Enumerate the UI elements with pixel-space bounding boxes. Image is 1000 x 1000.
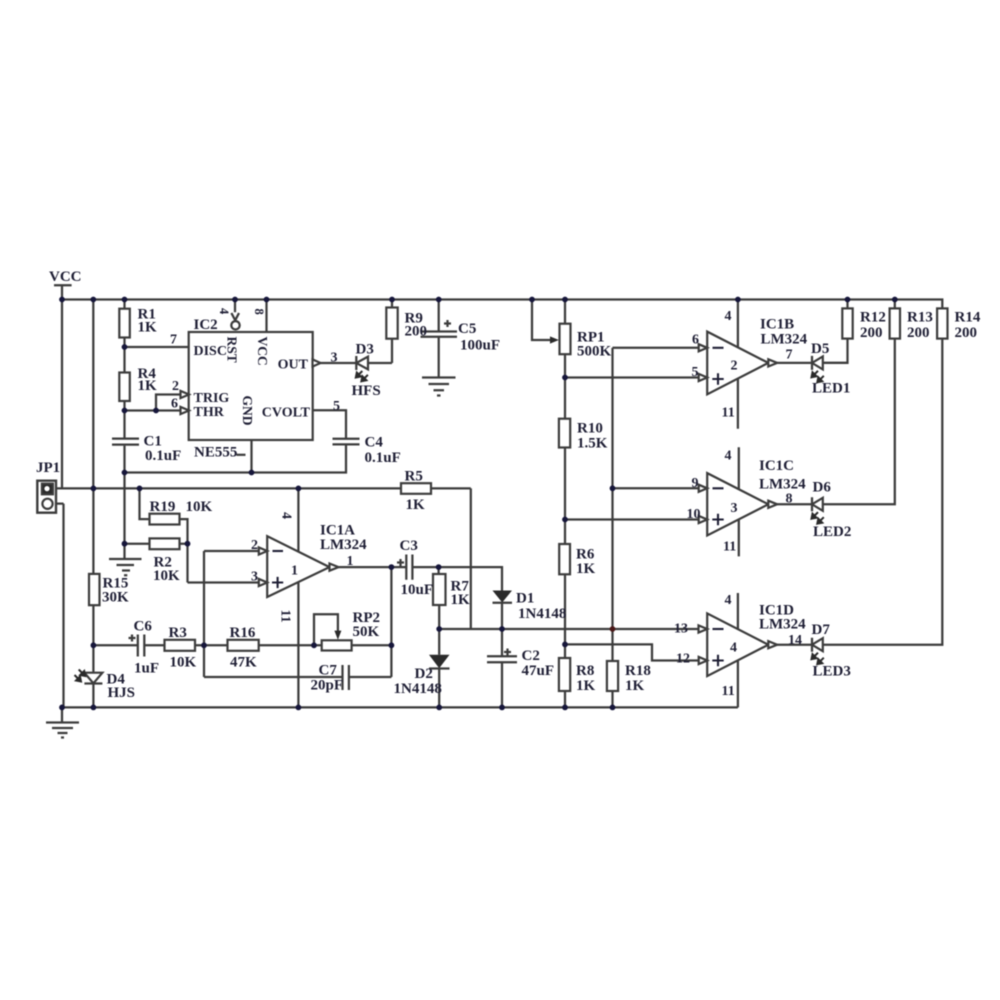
svg-text:NE555: NE555: [194, 445, 237, 461]
svg-text:8: 8: [252, 309, 266, 315]
svg-text:4: 4: [279, 512, 294, 519]
svg-text:C5: C5: [458, 321, 476, 337]
svg-text:11: 11: [722, 684, 735, 699]
svg-text:1.5K: 1.5K: [577, 436, 608, 452]
svg-text:20pF: 20pF: [311, 678, 344, 694]
svg-text:LED1: LED1: [812, 381, 850, 397]
svg-text:200: 200: [860, 325, 883, 341]
svg-text:C6: C6: [134, 619, 153, 635]
svg-text:D3: D3: [356, 342, 374, 358]
svg-text:6: 6: [692, 333, 699, 348]
svg-text:10: 10: [687, 507, 701, 522]
svg-text:47uF: 47uF: [522, 663, 555, 679]
svg-text:4: 4: [217, 308, 231, 315]
svg-text:D2: D2: [415, 666, 433, 682]
svg-text:3: 3: [251, 570, 258, 585]
svg-text:1K: 1K: [625, 678, 645, 694]
svg-text:200: 200: [405, 324, 428, 340]
svg-text:R16: R16: [230, 625, 256, 641]
svg-text:1K: 1K: [451, 592, 471, 608]
svg-text:4: 4: [730, 641, 737, 656]
svg-text:HJS: HJS: [108, 685, 136, 701]
svg-text:4: 4: [725, 309, 732, 324]
svg-text:1K: 1K: [138, 378, 158, 394]
svg-text:C2: C2: [522, 648, 540, 664]
svg-text:1uF: 1uF: [134, 661, 159, 677]
svg-text:11: 11: [278, 610, 293, 623]
svg-text:2: 2: [172, 379, 179, 394]
svg-text:13: 13: [674, 622, 688, 637]
svg-text:7: 7: [170, 333, 177, 348]
svg-text:1K: 1K: [138, 320, 158, 336]
svg-text:TRIG: TRIG: [194, 391, 230, 406]
svg-text:VCC: VCC: [49, 269, 82, 285]
svg-text:0.1uF: 0.1uF: [145, 448, 181, 464]
svg-text:LM324: LM324: [759, 477, 806, 493]
svg-text:5: 5: [692, 365, 699, 380]
svg-text:14: 14: [788, 633, 802, 648]
svg-text:CVOLT: CVOLT: [262, 406, 311, 421]
svg-text:R5: R5: [405, 469, 423, 485]
svg-text:8: 8: [786, 492, 793, 507]
svg-text:JP1: JP1: [36, 460, 60, 476]
svg-text:R12: R12: [860, 310, 886, 326]
svg-text:LM324: LM324: [759, 617, 806, 633]
svg-text:R3: R3: [169, 625, 187, 641]
svg-text:0.1uF: 0.1uF: [365, 450, 401, 466]
svg-text:4: 4: [725, 593, 732, 608]
svg-text:5: 5: [333, 399, 340, 414]
svg-text:3: 3: [331, 351, 338, 366]
svg-text:DISC: DISC: [194, 344, 227, 359]
svg-text:GND: GND: [240, 396, 255, 426]
svg-text:R13: R13: [907, 310, 933, 326]
svg-text:VCC: VCC: [255, 337, 270, 366]
svg-text:D5: D5: [811, 341, 829, 357]
svg-text:47K: 47K: [230, 655, 257, 671]
svg-text:1K: 1K: [576, 678, 596, 694]
svg-text:9: 9: [692, 476, 699, 491]
svg-text:R8: R8: [576, 663, 594, 679]
svg-text:200: 200: [955, 325, 978, 341]
svg-text:1K: 1K: [406, 497, 426, 513]
svg-text:R10: R10: [577, 421, 603, 437]
svg-text:7: 7: [786, 348, 793, 363]
svg-text:4: 4: [725, 449, 732, 464]
svg-text:2: 2: [731, 359, 738, 374]
svg-text:R18: R18: [625, 663, 651, 679]
svg-text:IC1B: IC1B: [760, 317, 794, 333]
svg-text:LM324: LM324: [761, 332, 808, 348]
svg-text:3: 3: [731, 501, 738, 516]
svg-text:LED3: LED3: [813, 664, 851, 680]
svg-text:11: 11: [723, 540, 736, 555]
svg-text:LM324: LM324: [320, 537, 367, 553]
svg-text:10K: 10K: [153, 568, 180, 584]
svg-text:10uF: 10uF: [401, 582, 434, 598]
svg-text:1: 1: [291, 564, 298, 579]
svg-text:D6: D6: [813, 480, 832, 496]
svg-text:50K: 50K: [353, 624, 380, 640]
svg-text:HFS: HFS: [352, 383, 381, 399]
svg-text:OUT: OUT: [278, 358, 309, 373]
svg-text:10K: 10K: [170, 655, 197, 671]
svg-text:R14: R14: [955, 310, 981, 326]
svg-text:C3: C3: [400, 538, 418, 554]
svg-text:12: 12: [676, 652, 690, 667]
svg-text:6: 6: [171, 397, 178, 412]
svg-text:10K: 10K: [186, 499, 213, 515]
svg-text:R19: R19: [150, 499, 176, 515]
svg-text:100uF: 100uF: [460, 338, 500, 354]
svg-text:D1: D1: [516, 591, 534, 607]
svg-text:1N4148: 1N4148: [518, 606, 566, 622]
svg-text:IC1C: IC1C: [759, 458, 794, 474]
svg-text:11: 11: [722, 406, 735, 421]
svg-text:C4: C4: [365, 435, 384, 451]
svg-text:1: 1: [347, 554, 354, 569]
svg-text:500K: 500K: [577, 344, 612, 360]
svg-text:1N4148: 1N4148: [394, 681, 442, 697]
svg-text:LED2: LED2: [813, 524, 851, 540]
svg-text:30K: 30K: [102, 590, 129, 606]
svg-text:C7: C7: [319, 663, 338, 679]
svg-text:IC2: IC2: [194, 317, 218, 333]
svg-text:RST: RST: [225, 337, 240, 363]
svg-text:D7: D7: [812, 622, 831, 638]
svg-text:2: 2: [251, 538, 258, 553]
svg-text:1K: 1K: [576, 561, 596, 577]
svg-text:THR: THR: [194, 405, 225, 420]
svg-text:200: 200: [907, 325, 930, 341]
